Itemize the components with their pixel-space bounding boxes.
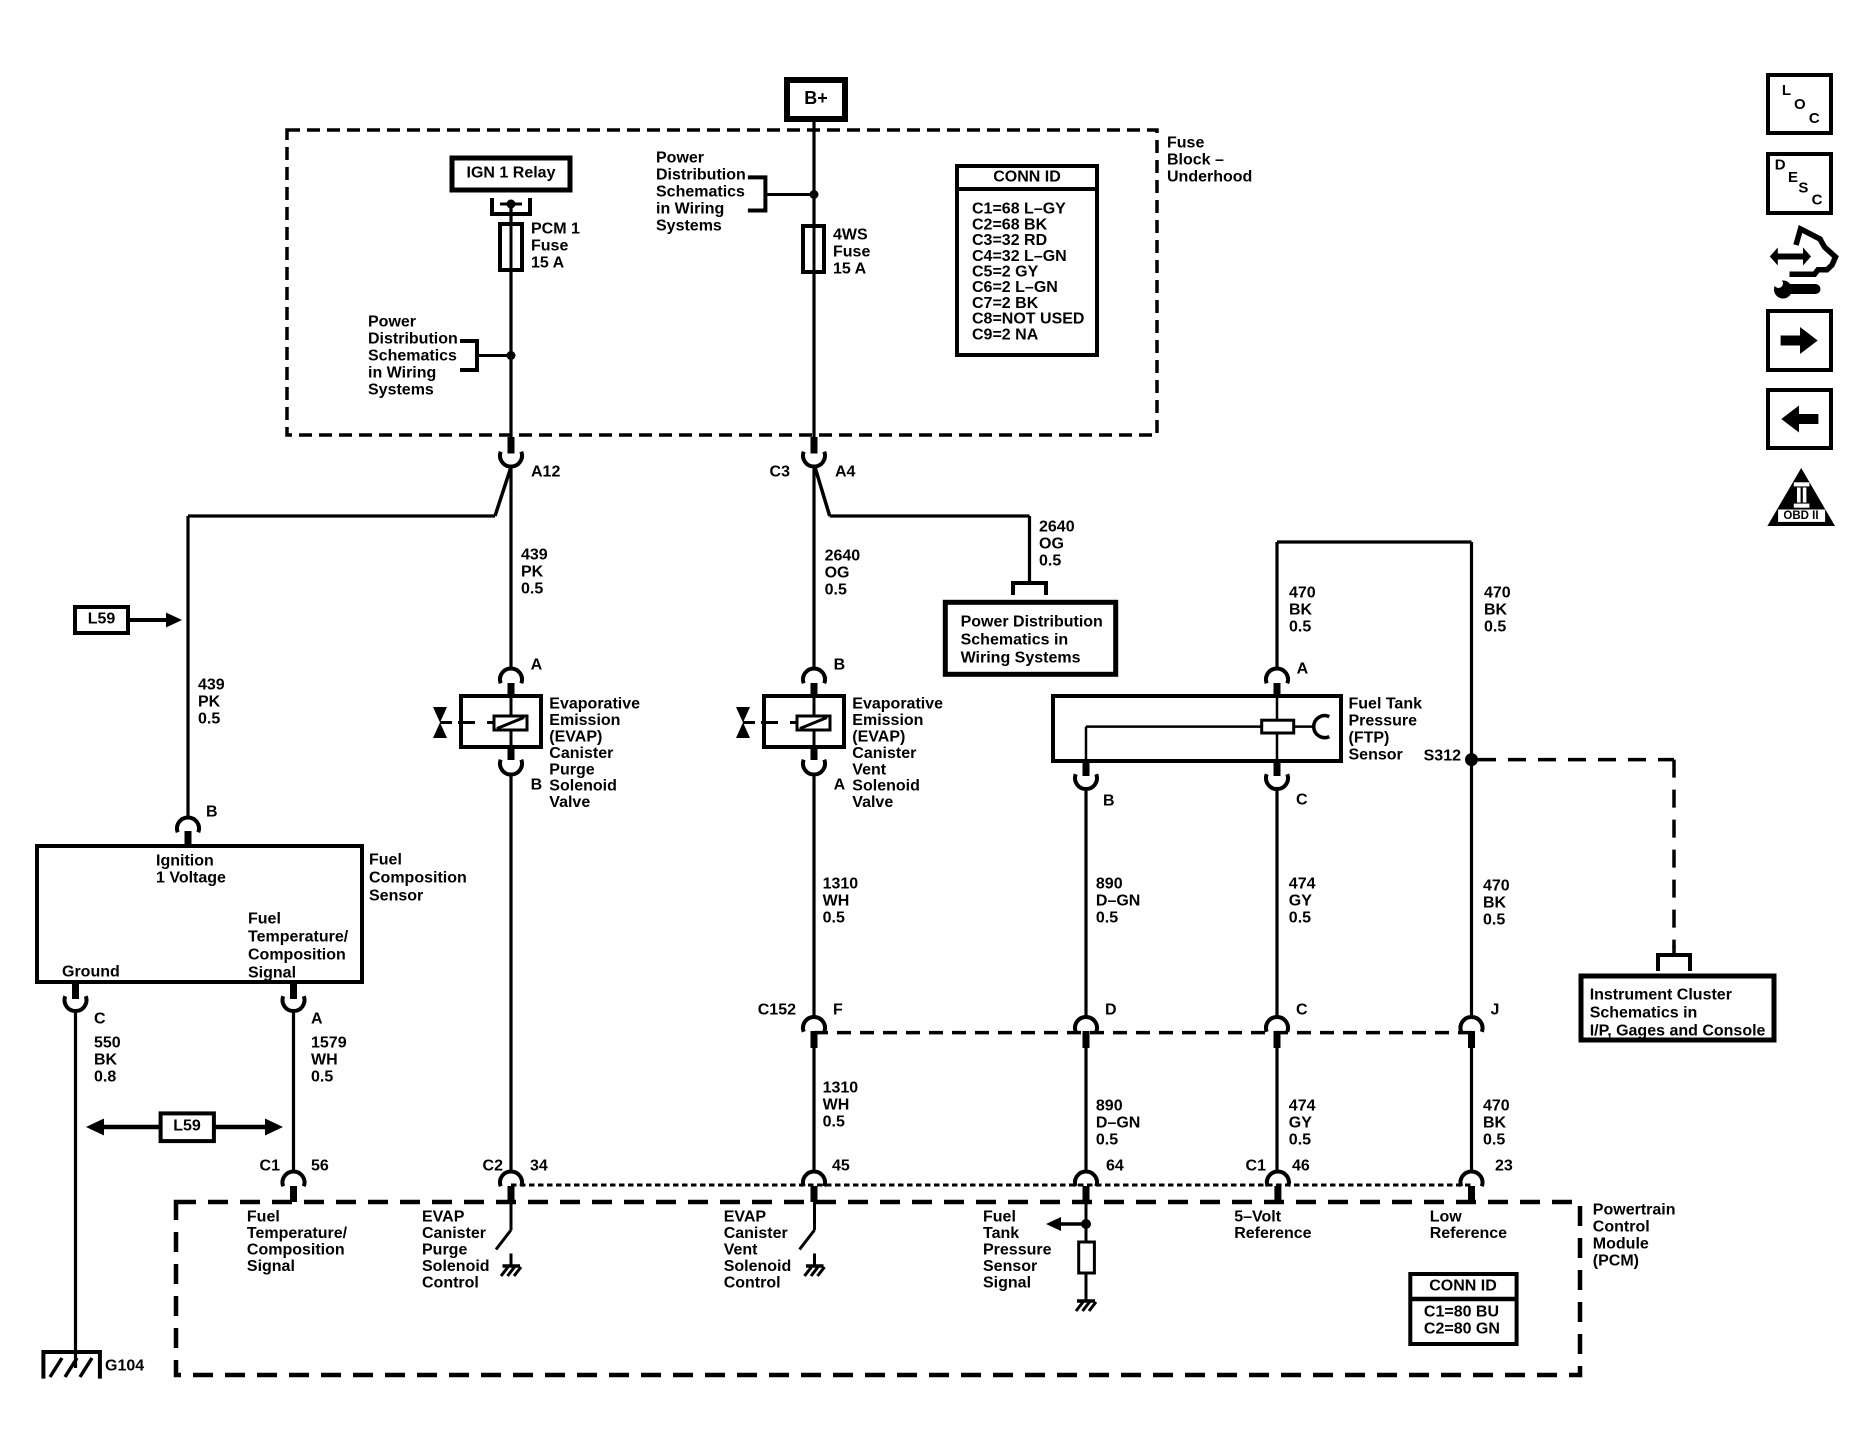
svg-text:0.5: 0.5 xyxy=(521,581,543,598)
svg-text:Schematics: Schematics xyxy=(656,184,745,201)
svg-text:550: 550 xyxy=(94,1035,121,1052)
svg-text:Fuel: Fuel xyxy=(247,1209,280,1226)
svg-text:439: 439 xyxy=(521,547,548,564)
svg-text:Composition: Composition xyxy=(248,947,346,964)
svg-text:Systems: Systems xyxy=(656,218,722,235)
svg-text:Distribution: Distribution xyxy=(656,167,746,184)
svg-text:C2=68 BK: C2=68 BK xyxy=(972,216,1048,233)
svg-text:B: B xyxy=(531,777,543,794)
svg-text:Solenoid: Solenoid xyxy=(852,778,920,795)
svg-text:0.5: 0.5 xyxy=(823,910,845,927)
svg-text:Control: Control xyxy=(1593,1219,1650,1236)
svg-text:B: B xyxy=(206,804,218,821)
svg-text:2640: 2640 xyxy=(1039,519,1075,536)
svg-text:GY: GY xyxy=(1289,1115,1312,1132)
svg-text:470: 470 xyxy=(1484,585,1511,602)
svg-text:Solenoid: Solenoid xyxy=(422,1258,490,1275)
svg-text:C1: C1 xyxy=(1246,1158,1267,1175)
svg-text:Block –: Block – xyxy=(1167,152,1224,169)
svg-text:1579: 1579 xyxy=(311,1035,347,1052)
svg-text:OBD II: OBD II xyxy=(1783,510,1818,522)
svg-text:IGN 1 Relay: IGN 1 Relay xyxy=(467,165,556,182)
svg-text:15 A: 15 A xyxy=(833,261,867,278)
svg-text:470: 470 xyxy=(1289,585,1316,602)
svg-text:C152: C152 xyxy=(758,1002,796,1019)
svg-text:S: S xyxy=(1798,179,1808,196)
svg-text:A4: A4 xyxy=(835,464,856,481)
svg-text:1310: 1310 xyxy=(823,876,859,893)
svg-text:0.5: 0.5 xyxy=(825,582,847,599)
svg-text:EVAP: EVAP xyxy=(422,1209,465,1226)
svg-text:Schematics: Schematics xyxy=(368,348,457,365)
svg-text:Canister: Canister xyxy=(422,1225,486,1242)
svg-text:Power Distribution: Power Distribution xyxy=(961,614,1103,631)
svg-text:F: F xyxy=(833,1002,843,1019)
svg-text:Systems: Systems xyxy=(368,382,434,399)
svg-text:BK: BK xyxy=(1289,602,1313,619)
svg-text:Temperature/: Temperature/ xyxy=(248,929,349,946)
svg-text:Solenoid: Solenoid xyxy=(724,1258,792,1275)
svg-text:Tank: Tank xyxy=(983,1225,1019,1242)
svg-text:C4=32 L–GN: C4=32 L–GN xyxy=(972,248,1067,265)
svg-text:Power: Power xyxy=(656,150,704,167)
svg-text:L59: L59 xyxy=(88,611,116,628)
svg-text:B: B xyxy=(834,657,846,674)
svg-text:I/P, Gages and Console: I/P, Gages and Console xyxy=(1590,1023,1766,1040)
svg-text:Evaporative: Evaporative xyxy=(852,696,943,713)
svg-text:C2=80 GN: C2=80 GN xyxy=(1424,1321,1500,1338)
svg-text:BK: BK xyxy=(1483,1115,1507,1132)
svg-text:Emission: Emission xyxy=(852,712,923,729)
svg-text:L: L xyxy=(1782,82,1791,99)
svg-text:474: 474 xyxy=(1289,876,1316,893)
svg-text:Sensor: Sensor xyxy=(1349,747,1403,764)
svg-text:Temperature/: Temperature/ xyxy=(247,1225,348,1242)
svg-text:D–GN: D–GN xyxy=(1096,893,1140,910)
svg-text:23: 23 xyxy=(1495,1158,1513,1175)
svg-text:OG: OG xyxy=(1039,536,1064,553)
svg-text:Control: Control xyxy=(724,1275,781,1292)
svg-text:Valve: Valve xyxy=(549,794,590,811)
svg-text:1 Voltage: 1 Voltage xyxy=(156,870,226,887)
svg-text:C: C xyxy=(94,1011,106,1028)
svg-text:Fuse: Fuse xyxy=(531,238,568,255)
svg-text:Fuel: Fuel xyxy=(369,852,402,869)
svg-text:Power: Power xyxy=(368,314,416,331)
svg-text:Powertrain: Powertrain xyxy=(1593,1202,1676,1219)
svg-text:B: B xyxy=(1103,793,1115,810)
svg-text:45: 45 xyxy=(832,1158,850,1175)
svg-text:0.5: 0.5 xyxy=(1483,1132,1505,1149)
svg-text:C2: C2 xyxy=(483,1158,504,1175)
svg-text:474: 474 xyxy=(1289,1098,1316,1115)
svg-text:C: C xyxy=(1812,191,1823,208)
svg-text:Composition: Composition xyxy=(369,870,467,887)
svg-text:C3: C3 xyxy=(770,464,791,481)
svg-text:Purge: Purge xyxy=(549,761,594,778)
svg-text:0.8: 0.8 xyxy=(94,1069,116,1086)
svg-text:Schematics in: Schematics in xyxy=(961,632,1069,649)
svg-text:D: D xyxy=(1105,1002,1117,1019)
svg-text:2640: 2640 xyxy=(825,548,861,565)
svg-text:Wiring Systems: Wiring Systems xyxy=(961,650,1081,667)
svg-text:C1=80 BU: C1=80 BU xyxy=(1424,1304,1499,1321)
svg-text:Instrument Cluster: Instrument Cluster xyxy=(1590,987,1732,1004)
svg-text:C3=32 RD: C3=32 RD xyxy=(972,232,1047,249)
svg-text:470: 470 xyxy=(1483,878,1510,895)
svg-text:Signal: Signal xyxy=(248,965,296,982)
svg-text:470: 470 xyxy=(1483,1098,1510,1115)
svg-text:Purge: Purge xyxy=(422,1242,467,1259)
svg-text:Schematics in: Schematics in xyxy=(1590,1005,1698,1022)
svg-text:5–Volt: 5–Volt xyxy=(1234,1209,1282,1226)
svg-text:(EVAP): (EVAP) xyxy=(549,729,602,746)
svg-text:Emission: Emission xyxy=(549,712,620,729)
svg-text:C9=2 NA: C9=2 NA xyxy=(972,326,1039,343)
svg-text:56: 56 xyxy=(311,1158,329,1175)
svg-text:Vent: Vent xyxy=(724,1242,758,1259)
svg-text:Valve: Valve xyxy=(852,794,893,811)
svg-text:Ground: Ground xyxy=(62,964,120,981)
svg-text:Canister: Canister xyxy=(549,745,613,762)
svg-text:Fuse: Fuse xyxy=(833,244,870,261)
svg-text:PCM 1: PCM 1 xyxy=(531,221,580,238)
svg-text:890: 890 xyxy=(1096,876,1123,893)
svg-text:0.5: 0.5 xyxy=(198,711,220,728)
svg-text:A12: A12 xyxy=(531,464,560,481)
svg-text:Low: Low xyxy=(1430,1209,1463,1226)
svg-text:Fuel: Fuel xyxy=(248,911,281,928)
svg-text:(PCM): (PCM) xyxy=(1593,1253,1639,1270)
svg-text:0.5: 0.5 xyxy=(1096,910,1118,927)
svg-text:in Wiring: in Wiring xyxy=(368,365,436,382)
svg-text:C6=2 L–GN: C6=2 L–GN xyxy=(972,279,1058,296)
svg-text:439: 439 xyxy=(198,677,225,694)
svg-text:34: 34 xyxy=(530,1158,548,1175)
svg-text:GY: GY xyxy=(1289,893,1312,910)
svg-text:Signal: Signal xyxy=(247,1258,295,1275)
svg-text:Signal: Signal xyxy=(983,1275,1031,1292)
svg-text:Ignition: Ignition xyxy=(156,853,214,870)
svg-text:D: D xyxy=(1775,156,1786,173)
svg-text:64: 64 xyxy=(1106,1158,1124,1175)
svg-text:Evaporative: Evaporative xyxy=(549,696,640,713)
svg-text:BK: BK xyxy=(94,1052,118,1069)
svg-text:C: C xyxy=(1809,110,1820,127)
svg-text:WH: WH xyxy=(311,1052,338,1069)
svg-text:A: A xyxy=(1297,661,1309,678)
svg-text:4WS: 4WS xyxy=(833,227,868,244)
svg-text:0.5: 0.5 xyxy=(823,1114,845,1131)
svg-text:0.5: 0.5 xyxy=(1289,619,1311,636)
svg-text:in Wiring: in Wiring xyxy=(656,201,724,218)
svg-text:L59: L59 xyxy=(173,1118,201,1135)
svg-text:Canister: Canister xyxy=(852,745,916,762)
svg-text:O: O xyxy=(1794,96,1806,113)
svg-text:C1: C1 xyxy=(260,1158,281,1175)
svg-text:0.5: 0.5 xyxy=(311,1069,333,1086)
svg-text:0.5: 0.5 xyxy=(1039,553,1061,570)
svg-text:S312: S312 xyxy=(1424,748,1461,765)
svg-text:Distribution: Distribution xyxy=(368,331,458,348)
svg-text:46: 46 xyxy=(1292,1158,1310,1175)
svg-text:0.5: 0.5 xyxy=(1483,912,1505,929)
svg-text:C1=68 L–GY: C1=68 L–GY xyxy=(972,201,1066,218)
svg-text:Reference: Reference xyxy=(1430,1225,1507,1242)
svg-text:B+: B+ xyxy=(804,88,828,108)
svg-text:A: A xyxy=(834,777,846,794)
svg-text:0.5: 0.5 xyxy=(1289,1132,1311,1149)
svg-text:Reference: Reference xyxy=(1234,1225,1311,1242)
svg-text:890: 890 xyxy=(1096,1098,1123,1115)
svg-text:CONN ID: CONN ID xyxy=(993,169,1061,186)
svg-text:C5=2 GY: C5=2 GY xyxy=(972,264,1039,281)
svg-text:WH: WH xyxy=(823,1097,850,1114)
svg-text:Fuse: Fuse xyxy=(1167,135,1204,152)
svg-text:CONN ID: CONN ID xyxy=(1429,1278,1497,1295)
svg-text:EVAP: EVAP xyxy=(724,1209,767,1226)
svg-text:(FTP): (FTP) xyxy=(1349,730,1390,747)
svg-text:OG: OG xyxy=(825,565,850,582)
svg-text:Fuel: Fuel xyxy=(983,1209,1016,1226)
svg-text:Pressure: Pressure xyxy=(983,1242,1052,1259)
svg-text:BK: BK xyxy=(1484,602,1508,619)
svg-text:Composition: Composition xyxy=(247,1242,345,1259)
svg-text:WH: WH xyxy=(823,893,850,910)
svg-text:PK: PK xyxy=(521,564,544,581)
svg-text:15 A: 15 A xyxy=(531,255,565,272)
svg-text:Canister: Canister xyxy=(724,1225,788,1242)
svg-text:C: C xyxy=(1296,792,1308,809)
svg-text:D–GN: D–GN xyxy=(1096,1115,1140,1132)
svg-text:1310: 1310 xyxy=(823,1080,859,1097)
svg-text:(EVAP): (EVAP) xyxy=(852,729,905,746)
svg-text:C8=NOT USED: C8=NOT USED xyxy=(972,311,1084,328)
svg-text:0.5: 0.5 xyxy=(1289,910,1311,927)
svg-text:G104: G104 xyxy=(105,1358,144,1375)
svg-text:Vent: Vent xyxy=(852,761,886,778)
svg-text:J: J xyxy=(1491,1002,1500,1019)
svg-text:A: A xyxy=(311,1011,323,1028)
svg-text:C: C xyxy=(1296,1002,1308,1019)
svg-text:Underhood: Underhood xyxy=(1167,169,1252,186)
svg-text:C7=2 BK: C7=2 BK xyxy=(972,295,1039,312)
svg-text:Sensor: Sensor xyxy=(369,888,423,905)
svg-text:Fuel Tank: Fuel Tank xyxy=(1349,696,1423,713)
svg-text:E: E xyxy=(1788,169,1798,186)
svg-text:Solenoid: Solenoid xyxy=(549,778,617,795)
svg-text:Pressure: Pressure xyxy=(1349,713,1418,730)
svg-text:0.5: 0.5 xyxy=(1484,619,1506,636)
svg-text:A: A xyxy=(531,657,543,674)
svg-text:PK: PK xyxy=(198,694,221,711)
svg-text:0.5: 0.5 xyxy=(1096,1132,1118,1149)
svg-text:BK: BK xyxy=(1483,895,1507,912)
svg-text:Control: Control xyxy=(422,1275,479,1292)
svg-text:Sensor: Sensor xyxy=(983,1258,1037,1275)
svg-text:Module: Module xyxy=(1593,1236,1649,1253)
